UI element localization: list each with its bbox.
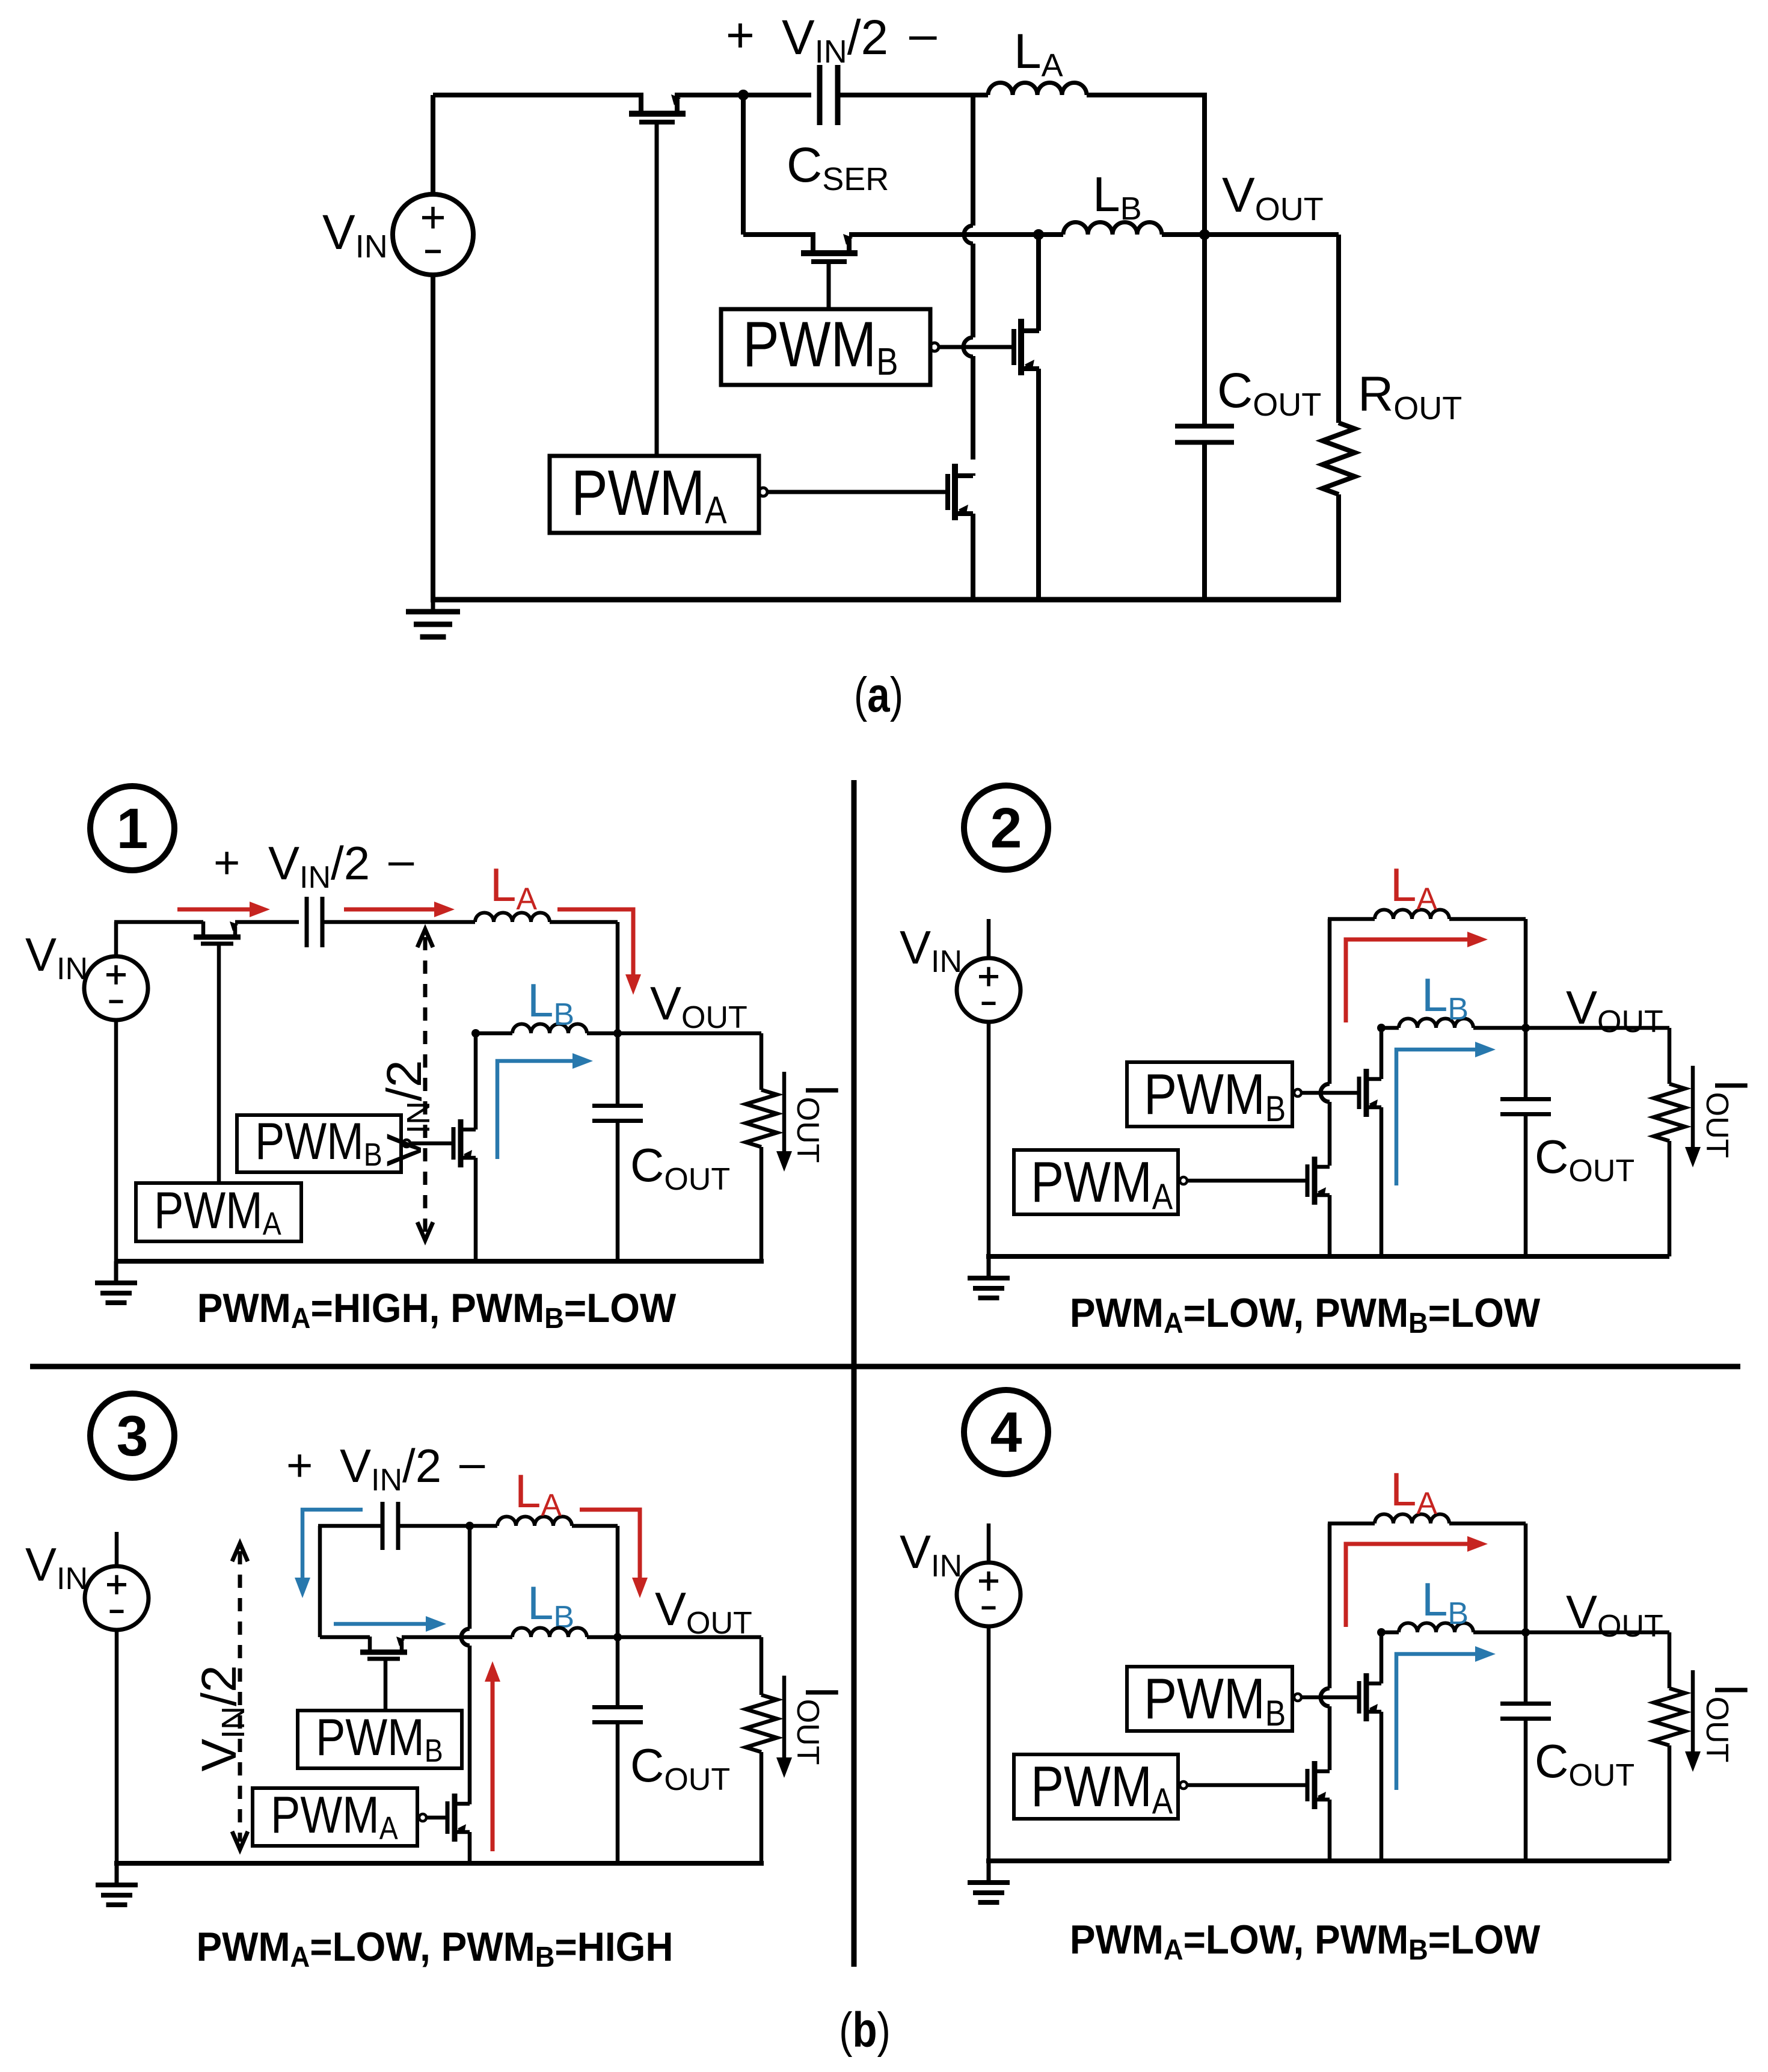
transistor QB2 (low-side B) [1018,319,1024,375]
label C_OUT panel4 [1535,1735,1634,1793]
node junction dot at C_SER left [738,90,749,100]
wire QB2 source down to rail panel1 [474,1158,478,1261]
wire V_IN top [431,95,435,194]
wire V_IN bottom panel4 [987,1626,991,1861]
svg-text:–: – [459,1437,485,1489]
arrow I_OUT panel2 [1691,1066,1695,1147]
transistor QA2 panel4 [1312,1761,1318,1809]
label V_IN/2 rotated panel1 [377,1060,437,1166]
caption panel4 [1070,1916,1541,1966]
svg-text:1: 1 [117,797,149,861]
label L_A red panel2 [1390,858,1437,917]
transistor QB1 panel3 [360,1650,407,1655]
wire QB2 source down to rail panel2 [1380,1107,1384,1256]
red arrow up through QA2 panel3 [491,1682,495,1851]
wire QB2 drain up to L_B node panel1 [474,1033,478,1130]
PWM_B box panel4 [1127,1667,1292,1731]
bubble PWM_A panel3 [419,1814,426,1821]
wire L_B to VOUT node [1162,232,1205,237]
transistor QA2 (low-side A) [952,464,958,520]
wire C_SER to L_A panel1 [322,920,475,924]
junction dot at QB2 drain branch [1033,229,1044,240]
wire L_A to right corner [1087,93,1205,97]
blue arrow current panel4 [1396,1654,1475,1790]
svg-text:PWMB: PWMB [1144,1062,1286,1129]
label + V_IN/2 - above C_SER [726,8,755,63]
label L_B blue panel3 [527,1576,574,1635]
red arrow current 3 into VOUT panel1 [557,909,633,974]
label V_OUT [1222,168,1324,227]
label C_SER [787,138,889,197]
blue arrow current panel1 [497,1061,572,1159]
wire VOUT to R corner panel1 [618,1031,761,1036]
gate wire QB2 panel2 [1301,1091,1359,1095]
wire QB2 drain up to L_B node [1036,235,1041,331]
wire QA2 source down to rail panel4 [1328,1800,1332,1861]
wire V_IN top stub panel3 [115,1532,119,1566]
circled number 4 [964,1390,1048,1474]
junction dot VOUT panel3 [613,1633,622,1641]
blue arrow current panel2 [1396,1050,1475,1185]
wire corner to C_SER panel3 [318,1524,382,1528]
junction dot VOUT node [1199,229,1210,240]
capacitor C_SER panel3 [381,1502,385,1550]
wire VOUT to R corner panel4 [1526,1631,1669,1635]
red arrow current 1 panel1 [177,908,250,912]
wire QA1 to C_SER panel1 [235,920,299,924]
PWM_B control box [721,309,930,385]
PWM_A box panel3 [253,1788,417,1846]
svg-text:PWMB: PWMB [316,1708,443,1769]
arrow I_OUT panel4 [1691,1670,1695,1751]
label I_OUT rotated panel3 [790,1686,849,1765]
inductor L_B panel4 [1399,1623,1473,1633]
resistor R_OUT [1322,423,1355,494]
wire corner down to VOUT panel4 [1524,1523,1528,1632]
label V_IN panel1 [25,928,88,986]
svg-text:PWMA: PWMA [154,1181,281,1242]
inductor L_B [1063,222,1162,235]
inductor L_A panel4 [1375,1514,1449,1524]
gate wire QB2 panel4 [1301,1695,1359,1700]
svg-text:2: 2 [990,796,1022,860]
transistor QB2 panel1 [458,1119,464,1167]
label L_B [1093,167,1142,227]
wire L_A top row panel4 [1328,1522,1375,1526]
svg-text:+: + [213,837,240,888]
dashed arrow V_IN/2 panel3 [238,1551,242,1842]
ground rail panel3 [114,1861,764,1866]
gate wire QA2 panel2 [1187,1179,1307,1183]
wire C_SER to T junction panel3 [398,1524,470,1528]
label L_B blue panel4 [1422,1573,1469,1631]
PWM_A box panel2 [1014,1150,1178,1214]
wire QA1 to node SW-A [675,93,746,97]
label I_OUT rotated panel4 [1699,1683,1758,1762]
svg-text:–: – [388,835,414,886]
wire V_IN bottom panel2 [987,1022,991,1256]
capacitor C_OUT panel3 [616,1637,620,1709]
transistor QB1 (series-cap switch) [801,250,858,256]
voltage source V_IN panel1 [84,956,148,1020]
ground symbol [431,600,435,612]
capacitor C_OUT panel2 [1524,1028,1528,1101]
wire V_IN bottom to ground rail [431,275,435,602]
caption panel1 [197,1285,677,1334]
gate wire QA2 panel4 [1187,1783,1307,1788]
inductor L_A panel3 [497,1517,572,1526]
svg-text:PWMA=HIGH, PWMB=LOW: PWMA=HIGH, PWMB=LOW [197,1285,677,1334]
label I_OUT rotated panel2 [1699,1079,1758,1158]
label V_OUT panel3 [655,1582,752,1641]
wire V_IN top stub panel4 [987,1523,991,1563]
ground symbol panel3 [115,1863,119,1885]
wire R_OUT bottom to ground rail [1336,494,1341,602]
wire C_SER right node down vertical with hops [971,95,975,226]
wire right corner down to VOUT node [1202,93,1207,236]
PWM_A box panel1 [136,1183,301,1241]
capacitor C_SER panel1 [305,897,309,947]
capacitor C_OUT panel4 [1524,1632,1528,1705]
svg-text:PWMA: PWMA [271,1786,398,1846]
label L_B blue panel2 [1422,968,1469,1027]
resistor branch panel1 [760,1033,764,1090]
wire V_IN to top rail panel1 [114,922,118,956]
hop of vertical over L_B row panel3 [461,1629,470,1646]
svg-text:PWMA: PWMA [1031,1754,1173,1821]
label C_OUT panel2 [1535,1130,1634,1188]
arrow I_OUT panel1 [782,1072,787,1151]
wire L_A left vertical panel4 [1328,1523,1332,1688]
gate lead QA1 to PWM_A panel1 [217,944,221,1183]
inductor L_B panel1 [512,1024,587,1034]
ground rail panel1 [114,1259,764,1264]
gate wire QA2 panel3 [426,1816,447,1820]
wire QB2 source down to rail panel4 [1380,1712,1384,1861]
label V_OUT panel2 [1566,981,1663,1039]
label L_A red panel1 [490,858,537,917]
blue arrow along row panel3 [334,1622,426,1626]
capacitor C_SER [817,65,823,125]
label V_IN [322,205,388,265]
gate wire QB2 from PWM_B bubble [930,343,939,351]
wire L_B ends panel4 [1381,1631,1399,1635]
wire QB2 drain up to L_B node panel2 [1380,1028,1384,1079]
top loop corner panel3 [318,1526,322,1637]
wire C_SER right plate to L_A [838,93,988,97]
hop over PWM_B gate wire panel2 [1321,1084,1330,1102]
label + V_IN/2 - panel1 [213,837,240,888]
ground rail panel4 [986,1858,1669,1863]
resistor branch panel4 [1668,1632,1672,1688]
voltage source V_IN panel2 [957,958,1021,1022]
inductor L_A [988,83,1087,96]
hop of vertical over QB2 gate wire [963,337,973,357]
circled number 2 [964,785,1048,870]
label + V_IN/2 - panel3 [286,1440,313,1491]
PWM_A control box [550,456,759,533]
wire T to L_A panel3 [470,1524,497,1528]
junction dot top T panel3 [465,1522,474,1530]
ground rail panel2 [986,1254,1669,1259]
voltage source V_IN panel3 [85,1566,149,1630]
gate lead QA1 down to PWM_A box [655,122,659,457]
wire VOUT to R corner panel2 [1526,1026,1669,1030]
svg-text:PWMA=LOW, PWMB=HIGH: PWMA=LOW, PWMB=HIGH [196,1923,673,1973]
resistor branch panel2 [1668,1028,1672,1084]
inductor L_A panel2 [1375,910,1449,920]
svg-text:PWMA: PWMA [571,457,727,532]
caption panel3 [196,1923,673,1973]
label L_A [1014,24,1063,84]
wire from C_SER left node down to QB1 row [741,95,746,235]
wire V_IN bottom panel3 [115,1630,119,1863]
capacitor C_OUT branch wire [1202,235,1207,426]
divider vertical between panels [852,780,857,1967]
wire R_OUT corner down [1336,235,1341,423]
circled number 1 [90,786,174,870]
wire L_B ends panel2 [1381,1026,1399,1030]
wire corner down to VOUT panel2 [1524,919,1528,1028]
voltage source V_IN [393,194,473,275]
svg-text:3: 3 [117,1404,149,1468]
svg-text:PWMB: PWMB [743,309,898,383]
ground rail [431,597,1341,603]
transistor QB2 panel4 [1364,1673,1369,1721]
label V_IN/2 rotated panel3 [192,1665,251,1771]
junction dot VOUT panel4 [1521,1628,1530,1637]
blue arrow into loop panel3 [302,1510,363,1578]
wire L_A left vertical panel2 [1328,919,1332,1084]
wire to inductor L_B [1039,232,1063,237]
junction dot L_B left panel1 [471,1029,480,1038]
label L_B blue panel1 [527,974,574,1032]
wire L_A top row panel2 [1328,917,1375,921]
svg-text:PWMB: PWMB [1144,1666,1286,1733]
gate lead QB1 down to PWM_B box [827,263,831,310]
ground symbol panel2 [987,1256,991,1278]
ground symbol panel4 [987,1861,991,1883]
wire corner down to VOUT panel1 [616,922,620,1033]
inductor L_B panel2 [1399,1019,1473,1028]
bubble PWM_B panel1 [403,1140,410,1147]
wire V_IN top stub panel2 [987,919,991,958]
wire L_A to corner panel1 [550,920,618,924]
capacitor C_OUT panel1 [616,1033,620,1107]
wire corner down to VOUT row panel3 [616,1526,620,1637]
junction dot L_B left panel4 [1377,1628,1386,1637]
transistor QA1 panel1 [194,935,241,940]
dashed arrow V_IN/2 panel1 [423,937,428,1232]
transistor QA2 panel2 [1312,1157,1318,1205]
red arrow from L_A to VOUT panel3 [580,1510,640,1578]
bubble PWM_B panel2 [1294,1089,1301,1096]
wire L_A to corner panel4 [1449,1522,1526,1526]
circled number 3 [90,1394,174,1478]
label V_IN panel4 [900,1525,962,1584]
svg-text:(a): (a) [854,667,903,722]
voltage source V_IN panel4 [957,1563,1021,1626]
label C_OUT panel1 [630,1139,730,1197]
wire vertical from T down to QA2 panel3 [468,1526,472,1629]
gate lead QB1 to PWM_B panel3 [384,1659,388,1711]
transistor QA1 (input switch) [629,111,686,117]
PWM_B box panel1 [237,1115,401,1172]
svg-text:4: 4 [990,1401,1022,1465]
svg-text:+: + [726,8,755,63]
arrow I_OUT panel3 [782,1676,787,1757]
wire V_IN bottom panel1 [114,1020,118,1261]
ground symbol panel1 [114,1261,118,1283]
wire QB2 source down to ground rail [1036,369,1041,602]
label V_OUT panel1 [650,977,747,1035]
junction dot L_B left panel2 [1377,1024,1386,1032]
wire L_B to VOUT junction panel3 [587,1635,618,1640]
wire C_OUT bottom to rail [1202,442,1207,602]
label V_OUT panel4 [1566,1585,1663,1644]
svg-text:+: + [286,1440,313,1491]
bubble PWM_A panel4 [1180,1781,1187,1789]
wire QA2 source down to rail panel2 [1328,1195,1332,1256]
transistor QA2 panel3 [452,1794,458,1842]
svg-text:PWMA=LOW, PWMB=LOW: PWMA=LOW, PWMB=LOW [1070,1290,1541,1339]
label (a) [854,667,903,722]
svg-text:PWMA: PWMA [1031,1149,1173,1217]
wire L_B coil ends panel1 [476,1031,512,1036]
PWM_A box panel4 [1014,1754,1178,1819]
wire L_A to corner panel2 [1449,917,1526,921]
svg-text:PWMA=LOW, PWMB=LOW: PWMA=LOW, PWMB=LOW [1070,1916,1541,1966]
wire top rail panel1 [114,920,203,924]
label C_OUT [1217,363,1321,423]
wire VOUT to R corner panel3 [618,1635,761,1640]
red arrow current 2 panel1 [344,908,434,912]
red arrow current panel4 [1346,1544,1467,1627]
wire QA2 source down to rail panel3 [468,1832,472,1863]
wire QA2 source down to ground rail [971,514,975,602]
caption panel2 [1070,1290,1541,1339]
wire QB1 to L_B panel3 [402,1635,512,1640]
svg-text:(b): (b) [839,2002,891,2058]
red arrow current panel2 [1346,939,1467,1022]
gate wire QA2 from PWM_A bubble [759,488,767,496]
wire down-node to QB1 [743,232,815,237]
hop over PWM_B gate wire panel4 [1321,1688,1330,1706]
junction dot VOUT panel2 [1521,1024,1530,1032]
label L_A red panel4 [1390,1463,1437,1521]
wire row from corner to QB1 panel3 [320,1635,370,1640]
label C_OUT panel3 [630,1739,730,1797]
svg-text:PWMB: PWMB [255,1112,382,1173]
hop of vertical over L_B row wire [964,226,973,244]
divider horizontal between panel rows [30,1364,1740,1370]
wire L_A to corner panel3 [572,1524,618,1528]
label (b) [839,2002,891,2058]
label I_OUT rotated panel1 [790,1084,849,1163]
junction dot VOUT panel1 [613,1029,622,1038]
gate wire QB2 panel1 [410,1142,453,1146]
bubble PWM_A panel2 [1180,1177,1187,1184]
wire QB2 drain up to L_B node panel4 [1380,1632,1384,1683]
PWM_B box panel2 [1127,1062,1292,1127]
label R_OUT [1358,367,1462,426]
label L_A red panel3 [515,1465,562,1523]
wire QB1 to L_B row [849,232,1039,237]
wire top rail from VIN to QA1 [433,93,643,97]
bubble PWM_B panel4 [1294,1694,1301,1701]
transistor QB2 panel2 [1364,1069,1369,1117]
inductor L_A panel1 [475,912,550,922]
PWM_B box panel3 [298,1711,462,1768]
wire QA2 drain to vertical [971,473,975,476]
inductor L_B panel3 [512,1628,587,1638]
svg-text:–: – [909,7,937,61]
label V_IN panel2 [900,921,962,979]
capacitor C_OUT [1175,424,1234,429]
resistor branch panel3 [760,1637,764,1695]
label V_IN panel3 [25,1538,88,1596]
wire node to C_SER left plate [743,93,811,97]
wire VOUT node to R_OUT corner [1205,232,1339,237]
